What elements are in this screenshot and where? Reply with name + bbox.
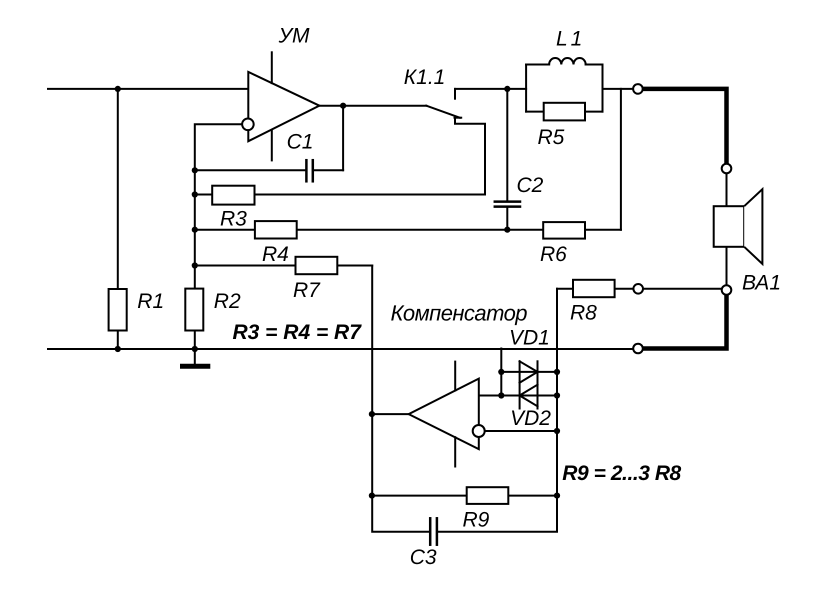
svg-text:R1: R1 xyxy=(137,290,164,313)
svg-text:R7: R7 xyxy=(293,279,321,302)
svg-text:R3 = R4 = R7: R3 = R4 = R7 xyxy=(233,321,363,344)
svg-text:Компенсатор: Компенсатор xyxy=(391,301,528,326)
svg-text:R9 = 2...3 R8: R9 = 2...3 R8 xyxy=(562,462,681,485)
svg-text:УМ: УМ xyxy=(278,24,310,47)
svg-text:R9: R9 xyxy=(463,508,490,531)
svg-text:R8: R8 xyxy=(570,302,597,325)
svg-text:R3: R3 xyxy=(220,208,247,231)
svg-text:К1.1: К1.1 xyxy=(404,66,446,89)
svg-text:L1: L1 xyxy=(556,28,585,51)
svg-text:R5: R5 xyxy=(538,126,565,149)
svg-text:ВА1: ВА1 xyxy=(742,272,781,295)
svg-text:R4: R4 xyxy=(262,243,289,266)
svg-text:С3: С3 xyxy=(410,546,437,569)
svg-text:VD1: VD1 xyxy=(509,327,550,350)
svg-text:R6: R6 xyxy=(540,243,567,266)
svg-text:С1: С1 xyxy=(287,131,314,154)
svg-text:R2: R2 xyxy=(214,290,241,313)
svg-text:С2: С2 xyxy=(517,174,544,197)
svg-text:VD2: VD2 xyxy=(510,407,551,430)
